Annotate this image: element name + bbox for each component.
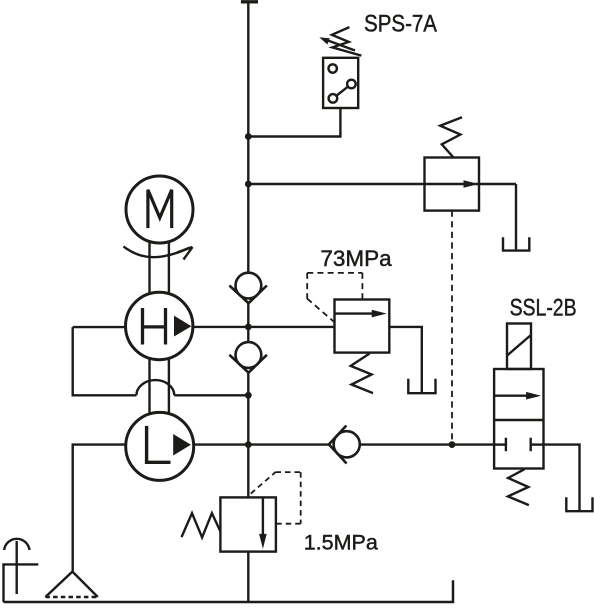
solenoid valve spring	[508, 469, 529, 505]
junction dot A	[245, 133, 252, 140]
solenoid valve blocked ports	[494, 438, 543, 452]
reducing valve internal arrow	[259, 497, 267, 549]
wire check valve to solenoid valve	[360, 443, 494, 445]
junction dot D	[245, 392, 252, 399]
unloading valve spring	[440, 117, 462, 157]
check valve CV2	[229, 342, 267, 373]
breather	[2, 539, 38, 602]
solenoid valve open position arrow	[494, 392, 541, 400]
svg-text:SPS-7A: SPS-7A	[364, 11, 437, 38]
reducing valve spring	[182, 513, 221, 537]
junction dot C	[245, 324, 252, 331]
wire main vertical segment 3	[247, 373, 249, 498]
relief valve 73MPa internal arrow	[335, 310, 387, 318]
motor M circle	[126, 176, 193, 243]
pilot dashed enclosure 73MPa	[307, 273, 362, 322]
shaft pump H to pump L	[150, 360, 169, 413]
pump H circle	[126, 292, 193, 359]
unloading valve flow arrowhead	[464, 180, 479, 188]
drain 1 (unloading valve)	[503, 237, 529, 250]
svg-text:73MPa: 73MPa	[320, 246, 392, 271]
relief valve 73MPa spring	[351, 354, 373, 394]
wire unloading valve line	[248, 183, 516, 185]
svg-text:SSL-2B: SSL-2B	[510, 295, 577, 322]
wire pump L left port to tank	[73, 445, 126, 572]
pump L letter L	[145, 426, 171, 462]
wire branch to pressure switch	[248, 108, 340, 137]
motor letter M	[148, 190, 172, 228]
solenoid valve SSL-2B body	[494, 369, 543, 469]
port P top tick	[241, 0, 258, 3]
check valve CV3	[329, 426, 360, 464]
junction dot F	[449, 441, 456, 448]
pressure switch SPS-7A body	[323, 58, 358, 108]
drain 2 (relief valve)	[408, 379, 435, 393]
reducing valve 1.5MPa body	[220, 497, 276, 551]
pressure switch SPS-7A adjust arrow	[319, 37, 355, 50]
pump L flow triangle	[173, 434, 191, 456]
pump L circle	[126, 412, 194, 480]
relief valve 73MPa body	[335, 300, 390, 353]
wire bypass loop with bridge crossover	[73, 327, 249, 395]
wire pump L output	[194, 443, 329, 445]
wire solenoid valve to drain	[544, 445, 580, 510]
wire relief valve to drain	[389, 327, 422, 392]
wire unloading valve to drain	[515, 184, 517, 249]
pump H flow triangle	[174, 316, 191, 337]
reducing valve pilot dashed	[251, 472, 301, 524]
wire main vertical segment 2	[247, 303, 249, 342]
drain 3 (solenoid valve)	[566, 497, 592, 511]
pump H letter H	[143, 308, 166, 345]
unloading valve body	[425, 158, 480, 211]
wire pump H output line	[193, 326, 335, 328]
wire pump H left port	[73, 326, 126, 328]
wire main vertical segment 1	[247, 2, 249, 273]
svg-text:1.5MPa: 1.5MPa	[304, 531, 378, 555]
junction dot E	[245, 441, 252, 448]
tank triangle	[45, 572, 97, 597]
tank bottom line	[4, 580, 454, 602]
pilot dashed line unloader	[451, 211, 453, 445]
wire main vertical segment 4	[247, 552, 249, 602]
check valve CV1	[229, 273, 267, 304]
pressure switch SPS-7A spring	[332, 27, 362, 55]
shaft motor to pump H	[150, 243, 169, 293]
solenoid valve SSL-2B solenoid box	[507, 324, 531, 370]
motor rotation arrow	[124, 246, 193, 259]
junction dot B	[245, 181, 252, 188]
